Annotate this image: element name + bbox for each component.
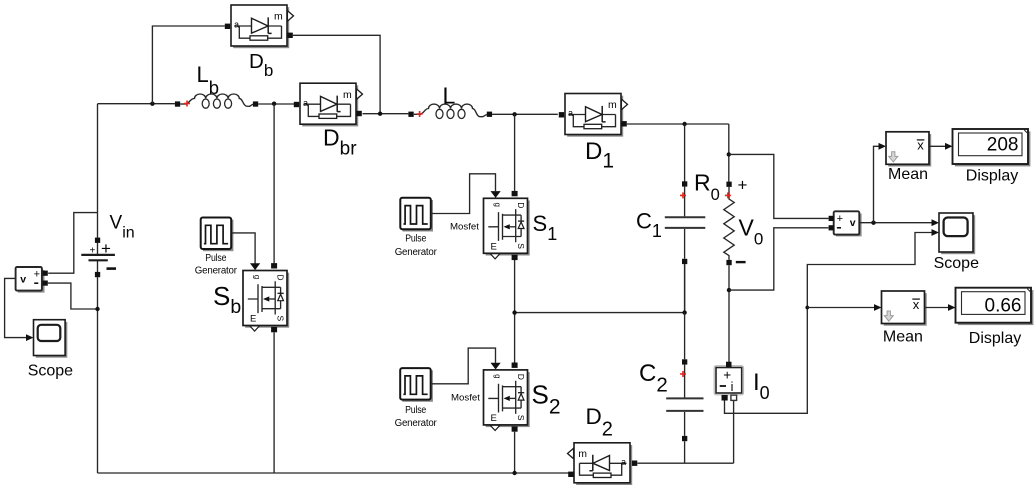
wire: Sb source to bottom rail [273,332,275,473]
svg-text:Display: Display [969,330,1021,347]
label Mosfet S1 [450,222,479,233]
svg-text:Generator: Generator [395,418,438,429]
label Db [249,50,273,80]
wire: down to R0 [728,124,730,182]
scope Scope2 [939,213,975,254]
plus sign battery [101,239,111,258]
node: top rail / Db input junction [150,102,154,106]
node: V0 plus sense junction [727,152,731,156]
mosfet Sb [243,263,289,332]
wire: Db output down to Dbr output rail [292,35,380,112]
label Scope2 [934,255,979,272]
svg-text:Generator: Generator [395,247,438,258]
svg-text:Scope: Scope [934,255,979,272]
svg-text:i: i [731,380,734,394]
wire: V0 plus sense [729,154,829,218]
label Display2 [969,330,1021,347]
node: S2 source junction [512,471,516,475]
svg-text:Pulse: Pulse [405,405,427,416]
mean Mean1 [886,132,931,167]
svg-text:Mosfet: Mosfet [451,393,480,404]
wire: half-bridge mid rail [515,260,685,364]
label PG3 [395,405,438,429]
svg-text:208: 208 [987,135,1019,156]
label Mean1 [888,166,928,183]
current polarity marker Lb [184,101,190,107]
arrowhead into Scope1 [26,334,34,341]
label PG2 [395,233,438,258]
mean Mean2 [882,291,927,326]
arrowhead into Mean [879,143,887,150]
svg-text:Pulse: Pulse [405,233,427,244]
arrowhead into Display1 [945,143,953,150]
label C1 [636,209,662,242]
svg-text:Generator: Generator [195,266,238,277]
wire: Sb drain [273,104,275,264]
display Display1 [953,129,1031,166]
wire: Mean1 to Display1 [929,145,945,147]
label Sb [213,281,241,318]
svg-text:+: + [90,246,96,257]
voltage measurement V0 [829,211,862,236]
svg-text:C1: C1 [636,209,662,242]
current measurement I0 [714,362,743,401]
wire: V0 output to Scope [860,222,933,224]
svg-text:Scope: Scope [28,363,73,380]
label V0 [739,215,764,249]
inductor Lb [175,94,258,108]
svg-text:I0: I0 [753,369,770,403]
wire: signal to Mean2 [807,307,874,309]
label S1 [533,211,558,244]
svg-text:Mean: Mean [883,329,923,346]
label D2 [586,404,613,441]
wire: top rail from source to Lb [98,103,175,105]
wire: I0 signal to Scope input 2 [725,233,933,414]
wire: Mean2 to Display2 [925,307,949,309]
diode Dbr [294,83,363,126]
wire: Db input [152,26,224,104]
svg-text:Mean: Mean [888,166,928,183]
label Scope1 [28,363,73,380]
node: measurement signal junction [871,221,875,225]
label I0 [753,369,770,403]
wire: PG2 to S1 gate [431,174,496,214]
wire: V0 minus sense [729,228,828,290]
resistor R0 [724,182,734,266]
wire: D2 anode rail [638,462,734,464]
label L [443,83,456,109]
inductor L [408,104,492,118]
svg-text:L: L [443,83,456,109]
arrowhead into Scope input 2 [932,229,940,236]
svg-text:D1: D1 [585,138,614,173]
battery Vin DC source [81,238,115,278]
svg-text:S1: S1 [533,211,558,244]
label Mean2 [883,329,923,346]
label Vin [110,213,135,242]
arrowhead into Display2 [948,304,956,311]
current polarity marker C1 [680,192,686,198]
display Display2 [956,288,1034,325]
svg-text:Db: Db [249,50,273,80]
capacitor C1 [665,124,706,313]
wire: PG3 to S2 gate [431,348,496,384]
svg-text:S2: S2 [532,380,561,419]
diode Db [225,5,294,48]
capacitor C2 [666,313,703,464]
svg-text:Display: Display [966,167,1018,184]
pulse generator PG3 [400,368,433,402]
svg-text:+: + [34,268,40,280]
node: S1 drain junction [512,112,516,116]
svg-text:C2: C2 [639,360,668,397]
label S2 [532,380,561,419]
svg-text:Lb: Lb [197,62,220,98]
wire: Lb to Dbr [258,103,294,105]
bottom rail [98,472,570,474]
wire: I0 minus to anode rail [733,401,735,464]
scope Scope1 [34,320,68,358]
label Mosfet S2 [451,393,480,404]
label PG1 [195,253,238,277]
label Dbr [323,125,357,160]
svg-text:Pulse: Pulse [205,253,227,264]
wire: S2 source to bottom rail [514,432,516,473]
label D1 [585,138,614,173]
node: mid rail C junction [682,310,686,314]
wire: v1 output to Scope1 [5,278,27,337]
current polarity marker C2 [680,371,686,377]
current polarity marker R0 [725,192,731,198]
wire: signal up to Mean [874,146,880,222]
wire: v1 minus to main wire [48,283,98,309]
svg-text:v: v [850,217,856,229]
mosfet S2 [484,363,530,432]
mosfet S1 [484,191,530,260]
current polarity marker L [417,111,423,117]
wire: Dbr output to L [363,113,409,115]
voltage measurement v1 [16,267,48,293]
svg-text:Dbr: Dbr [323,125,357,160]
plus sign V0 top [738,176,748,195]
wire: R0 bottom to I0 [728,265,730,362]
wire: D1 output rail [627,123,729,125]
wire: Vin plus tap to v1 [48,213,97,274]
label Display1 [966,167,1018,184]
label C2 [639,360,668,397]
svg-text:+: + [101,239,111,258]
label Lb [197,62,220,98]
node: C1 top junction [682,122,686,126]
label R0 [694,170,720,205]
svg-text:Vin: Vin [110,213,135,242]
node: mid rail S junction [512,310,516,314]
svg-text:R0: R0 [694,170,720,205]
svg-text:v: v [20,273,26,285]
node: v1 minus junction [95,307,99,311]
node: Sb drain junction [272,102,276,106]
node: Mean2 branch junction [805,306,809,310]
node: Db/Dbr output junction [378,112,382,116]
minus sign V0 bottom [736,261,746,263]
node: V0 minus sense junction [727,288,731,292]
pulse generator PG2 [400,198,433,232]
arrowhead into Scope input 1 [932,219,940,226]
diode D1 [559,94,628,137]
main left vertical wire [97,104,99,473]
wire: L to D1 [492,113,558,115]
wire: S1 drain [514,114,516,191]
pulse generator PG1 [201,218,234,252]
arrowhead into Mean2 [874,304,882,311]
diode D2 [568,443,638,485]
svg-text:Mosfet: Mosfet [450,222,479,233]
wire: PG1 to Sb gate [231,233,255,264]
small plus marker battery [90,246,96,257]
svg-text:+: + [837,213,843,225]
svg-text:+: + [738,176,748,195]
svg-text:D2: D2 [586,404,613,441]
minus sign battery [107,267,117,270]
svg-text:Sb: Sb [213,281,241,318]
svg-text:V0: V0 [739,215,764,249]
svg-text:0.66: 0.66 [985,296,1022,317]
